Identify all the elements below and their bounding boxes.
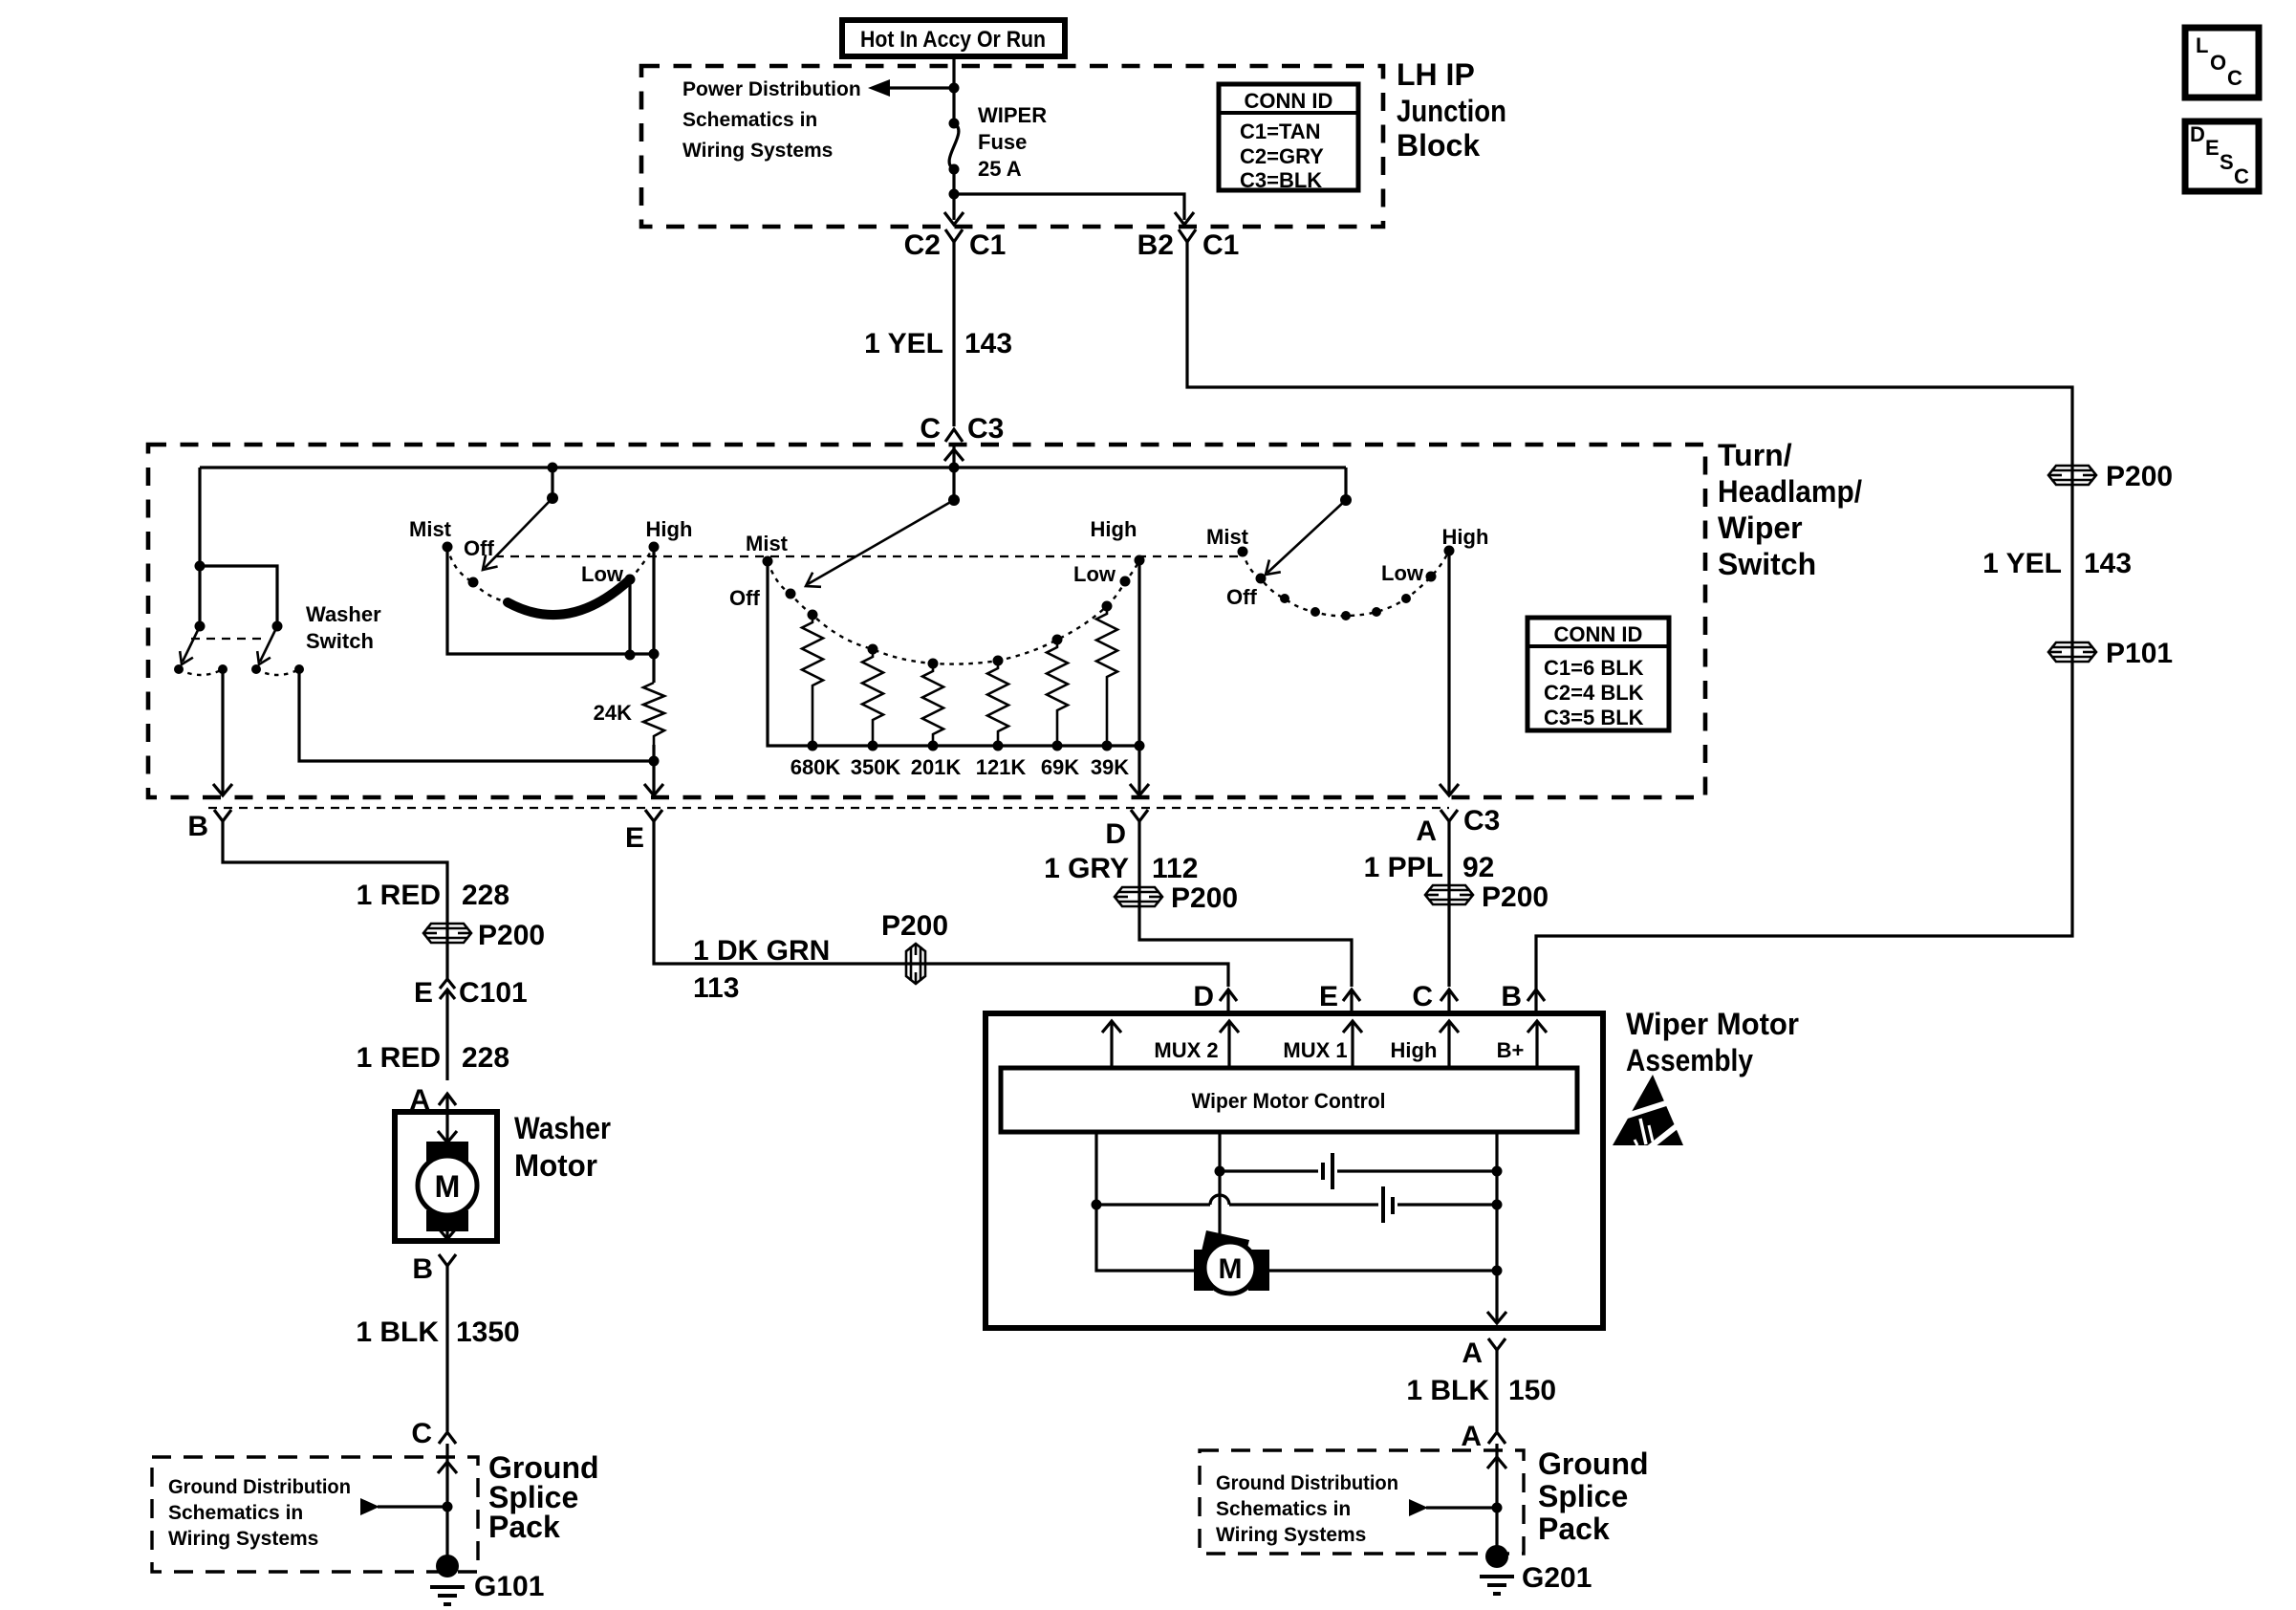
svg-text:Ground: Ground <box>1538 1447 1649 1481</box>
reference arrow into splice <box>360 1498 453 1515</box>
svg-text:E: E <box>1319 981 1338 1012</box>
connector E into assembly <box>1319 981 1360 1013</box>
section 2 dashed contact path <box>768 560 1139 664</box>
svg-text:C1: C1 <box>1202 229 1239 261</box>
wire with up arrow inside splice pack (right) <box>1487 1444 1506 1549</box>
svg-text:MUX 1: MUX 1 <box>1283 1038 1347 1062</box>
connector P101 (right side) <box>2048 638 2173 669</box>
svg-text:Switch: Switch <box>1718 547 1816 581</box>
wire: section 3 High drop to A exit <box>1440 551 1459 795</box>
connector B2/C1 <box>1137 229 1240 261</box>
ESD symbol <box>1613 1075 1691 1151</box>
svg-text:Low: Low <box>581 562 624 586</box>
svg-text:C: C <box>2227 66 2242 90</box>
svg-text:C2: C2 <box>904 229 941 261</box>
svg-text:S: S <box>2220 150 2234 174</box>
svg-text:121K: 121K <box>976 755 1027 779</box>
svg-text:M: M <box>1219 1253 1243 1285</box>
svg-text:P101: P101 <box>2106 638 2173 669</box>
svg-text:CONN ID: CONN ID <box>1245 89 1333 113</box>
svg-text:Off: Off <box>1226 585 1257 609</box>
connector C into assembly <box>1412 981 1458 1013</box>
svg-text:Assembly: Assembly <box>1626 1043 1753 1077</box>
svg-text:A: A <box>1462 1338 1483 1369</box>
CONN ID table (switch) <box>1527 618 1669 730</box>
arrowhead entering switch box <box>944 446 964 468</box>
svg-text:Wiper Motor Control: Wiper Motor Control <box>1192 1089 1386 1113</box>
resistor 69K <box>1047 640 1068 746</box>
connector P200 (washer feed) <box>423 904 545 979</box>
label Ground Splice Pack (right) <box>1538 1447 1649 1546</box>
label Washer Motor <box>514 1111 611 1183</box>
LOC reference box <box>2185 28 2259 98</box>
svg-text:P200: P200 <box>1171 882 1238 914</box>
connector C into ground splice pack <box>411 1418 456 1449</box>
svg-text:Pack: Pack <box>488 1510 560 1544</box>
svg-text:Wiring Systems: Wiring Systems <box>682 140 833 162</box>
svg-text:Ground Distribution: Ground Distribution <box>168 1476 351 1498</box>
svg-text:D: D <box>2190 122 2205 146</box>
resistor 24K <box>594 683 664 745</box>
washer switch left pole <box>174 621 227 676</box>
reference arrow into splice (right) <box>1409 1499 1503 1516</box>
node: junction dot at arrow tap <box>949 83 960 94</box>
svg-text:1 GRY: 1 GRY <box>1044 853 1129 884</box>
svg-text:Wiring Systems: Wiring Systems <box>168 1528 318 1550</box>
svg-text:Power Distribution: Power Distribution <box>682 78 861 100</box>
svg-text:E: E <box>625 822 644 854</box>
wire: switch A to assembly C (1 PPL 92) <box>1364 834 1495 987</box>
svg-text:Low: Low <box>1381 561 1424 585</box>
svg-text:150: 150 <box>1508 1375 1556 1406</box>
resistor 121K <box>987 661 1008 746</box>
dashed mechanical link line across sections <box>495 555 1241 557</box>
svg-text:Schematics in: Schematics in <box>168 1502 303 1524</box>
svg-text:Mist: Mist <box>409 517 452 541</box>
svg-text:C: C <box>1412 981 1433 1012</box>
internal circuit wires <box>1092 1132 1507 1323</box>
wire label 1 RED 228 (upper) <box>357 880 509 911</box>
washer motor box <box>395 1112 497 1241</box>
svg-text:113: 113 <box>693 972 739 1004</box>
svg-text:High: High <box>1442 525 1489 549</box>
connector P200 (on 1 PPL 92) <box>1425 881 1549 913</box>
label Ground Splice Pack (left) <box>488 1450 599 1544</box>
wire: 24K bottom to E exit <box>644 745 663 795</box>
svg-text:Off: Off <box>464 536 494 560</box>
svg-text:C1: C1 <box>969 229 1006 261</box>
svg-text:C1=6 BLK: C1=6 BLK <box>1544 656 1644 680</box>
svg-text:Junction: Junction <box>1397 94 1506 128</box>
dashed mechanical link of washer switch <box>191 638 262 640</box>
section 1 contacts <box>409 517 692 602</box>
connector E exit of switch <box>625 810 662 854</box>
svg-text:CONN ID: CONN ID <box>1554 622 1643 646</box>
wire: branch to second washer contact <box>200 566 277 626</box>
svg-text:112: 112 <box>1152 853 1198 884</box>
wiper motor M symbol <box>1194 1230 1497 1294</box>
resistor 350K <box>862 649 883 746</box>
svg-text:High: High <box>646 517 693 541</box>
svg-text:1 RED: 1 RED <box>357 880 441 911</box>
svg-text:Fuse: Fuse <box>978 130 1027 154</box>
svg-text:Splice: Splice <box>1538 1479 1628 1513</box>
svg-text:P200: P200 <box>881 910 948 942</box>
svg-text:A: A <box>1416 816 1437 847</box>
ground G201 <box>1480 1545 1592 1594</box>
wire: section 2 Mist drop and bottom rail <box>768 561 1139 746</box>
svg-text:C1=TAN: C1=TAN <box>1240 120 1321 143</box>
wire: B to washer motor drop <box>223 834 447 904</box>
rail junction dots <box>808 741 1145 751</box>
svg-text:E: E <box>414 977 433 1009</box>
svg-text:C101: C101 <box>459 977 528 1009</box>
capacitor line 1 <box>1220 1153 1497 1189</box>
section 3 contacts and labels <box>1206 525 1488 609</box>
svg-text:P200: P200 <box>1482 881 1549 913</box>
wire from B2 to right side <box>1187 256 2072 990</box>
svg-text:228: 228 <box>462 1042 509 1074</box>
svg-text:MUX 2: MUX 2 <box>1154 1038 1218 1062</box>
svg-text:High: High <box>1091 517 1137 541</box>
fuse WIPER Fuse 25 A <box>949 103 1048 181</box>
svg-text:L: L <box>2196 33 2208 57</box>
connector A into washer motor <box>409 1084 456 1116</box>
svg-text:E: E <box>2205 136 2220 160</box>
svg-text:Off: Off <box>729 586 760 610</box>
connector C2/C1 <box>904 229 1007 261</box>
svg-text:39K: 39K <box>1091 755 1129 779</box>
label Washer Switch <box>306 602 381 653</box>
label LH IP Junction Block <box>1397 57 1506 163</box>
section 1 thick wiper arc <box>508 579 630 615</box>
DESC reference box <box>2185 121 2259 191</box>
Turn/Headlamp/Wiper Switch dashed box <box>148 445 1705 797</box>
svg-text:25 A: 25 A <box>978 157 1022 181</box>
svg-text:Low: Low <box>1073 562 1116 586</box>
resistor 680K <box>802 615 823 746</box>
section 1 wiring <box>447 547 660 683</box>
svg-text:201K: 201K <box>911 755 962 779</box>
svg-text:Motor: Motor <box>514 1148 597 1183</box>
svg-text:Turn/: Turn/ <box>1718 438 1792 472</box>
svg-text:O: O <box>2210 51 2226 75</box>
svg-text:Headlamp/: Headlamp/ <box>1718 474 1862 509</box>
ground splice pack G201 dashed box <box>1200 1450 1524 1554</box>
thin dashed connector face line below switch box <box>208 807 1449 809</box>
label Turn/Headlamp/Wiper Switch <box>1718 438 1862 581</box>
svg-text:1 YEL: 1 YEL <box>1982 548 2062 579</box>
wire: branch to B2 <box>954 194 1184 220</box>
connector B exit of washer motor <box>412 1253 456 1431</box>
wire label 1 YEL 143 (right side) <box>1982 548 2132 579</box>
svg-text:B: B <box>412 1253 433 1285</box>
connector D exit of switch <box>1105 810 1148 850</box>
svg-text:Wiring Systems: Wiring Systems <box>1216 1524 1366 1546</box>
resistor 201K <box>922 664 943 746</box>
wire 1 YEL 143 (left drop) <box>864 256 1012 426</box>
svg-text:C2=GRY: C2=GRY <box>1240 144 1324 168</box>
note Ground Distribution Schematics in Wiring Systems (right) <box>1216 1472 1398 1546</box>
svg-text:Ground Distribution: Ground Distribution <box>1216 1472 1398 1494</box>
svg-text:143: 143 <box>2084 548 2132 579</box>
svg-text:B: B <box>1501 981 1522 1012</box>
arrow to Power Distribution <box>868 79 954 97</box>
CONN ID table (junction block) <box>1219 84 1358 192</box>
wire: left drop to washer switch <box>198 468 201 626</box>
svg-text:B: B <box>187 811 208 842</box>
svg-text:WIPER: WIPER <box>978 103 1047 127</box>
svg-text:Mist: Mist <box>1206 525 1249 549</box>
svg-text:D: D <box>1105 818 1126 850</box>
wire label 1 BLK 150 <box>1406 1375 1556 1406</box>
connector C/C3 into switch <box>920 413 1004 445</box>
wiper switch section 1 pivot <box>483 463 558 571</box>
ground splice pack G101 dashed box <box>152 1457 478 1572</box>
resistor ladder top nodes <box>808 601 1113 669</box>
svg-text:1 PPL: 1 PPL <box>1364 852 1443 883</box>
connector A into ground splice pack <box>1461 1421 1505 1452</box>
connector E C101 <box>414 977 528 1080</box>
assembly terminal arrows and labels <box>1102 1021 1547 1068</box>
wire label 1 BLK 1350 <box>356 1316 519 1348</box>
svg-text:P200: P200 <box>478 920 545 951</box>
note Power Distribution Schematics in Wiring Systems <box>682 78 861 162</box>
LH IP Junction Block dashed box <box>641 66 1383 227</box>
svg-text:Pack: Pack <box>1538 1512 1610 1546</box>
wiper motor assembly box <box>986 1013 1603 1328</box>
svg-text:1 YEL: 1 YEL <box>864 328 943 359</box>
svg-text:Hot In Accy Or Run: Hot In Accy Or Run <box>860 27 1046 53</box>
wiper switch section 2 pivot <box>806 463 960 587</box>
wire: switch D to assembly E (1 GRY 112) <box>1044 834 1352 987</box>
svg-text:P200: P200 <box>2106 461 2173 492</box>
wire: section 2 High drop to D exit <box>1130 560 1149 795</box>
svg-text:Mist: Mist <box>746 532 789 555</box>
svg-text:143: 143 <box>964 328 1012 359</box>
node: junction dot at branch <box>949 189 960 200</box>
svg-text:69K: 69K <box>1041 755 1079 779</box>
svg-text:Schematics in: Schematics in <box>1216 1498 1351 1520</box>
svg-text:A: A <box>1461 1421 1482 1452</box>
svg-text:350K: 350K <box>851 755 901 779</box>
svg-text:1350: 1350 <box>456 1316 520 1348</box>
washer motor M symbol <box>418 1112 477 1239</box>
connector D into assembly <box>1193 981 1237 1013</box>
label Wiper Motor Assembly <box>1626 1007 1799 1077</box>
svg-text:G201: G201 <box>1522 1562 1592 1594</box>
ground G101 <box>430 1555 544 1604</box>
connector B into assembly <box>1501 981 1545 1013</box>
wire: switch E to wiper motor assembly D (1 DK GRN 113) <box>654 834 1228 1004</box>
svg-text:680K: 680K <box>791 755 841 779</box>
svg-text:Wiper: Wiper <box>1718 511 1803 545</box>
svg-text:LH IP: LH IP <box>1397 57 1475 92</box>
svg-text:Washer: Washer <box>514 1111 611 1145</box>
svg-text:D: D <box>1193 981 1214 1012</box>
wire: washer switch output to B <box>213 669 232 795</box>
svg-text:1 RED: 1 RED <box>357 1042 441 1074</box>
svg-text:C3=BLK: C3=BLK <box>1240 168 1322 192</box>
capacitor line 2 with hop <box>1096 1186 1497 1223</box>
svg-text:C2=4 BLK: C2=4 BLK <box>1544 681 1644 705</box>
wire: washer switch output to E rail <box>299 669 654 761</box>
svg-text:C: C <box>2234 164 2249 188</box>
svg-text:Switch: Switch <box>306 629 374 653</box>
Wiper Motor Control box <box>1001 1068 1577 1132</box>
svg-text:1 BLK: 1 BLK <box>1406 1375 1489 1406</box>
wiper switch section 3 pivot <box>1266 468 1352 575</box>
svg-text:C3: C3 <box>1463 805 1500 837</box>
svg-text:Wiper Motor: Wiper Motor <box>1626 1007 1799 1041</box>
svg-text:C: C <box>920 413 941 445</box>
svg-text:G101: G101 <box>474 1571 544 1602</box>
svg-text:C: C <box>411 1418 432 1449</box>
section 2 contacts and labels <box>729 517 1145 610</box>
svg-text:M: M <box>435 1169 461 1204</box>
connector A exit of assembly <box>1462 1338 1505 1431</box>
wire: feed from Hot box into junction block <box>952 56 955 123</box>
svg-text:B2: B2 <box>1137 229 1174 261</box>
svg-text:C3: C3 <box>967 413 1004 445</box>
svg-text:High: High <box>1391 1038 1438 1062</box>
section 3 dashed contact path with dots <box>1243 551 1449 620</box>
washer switch right pole <box>251 621 304 676</box>
node dot <box>195 561 206 572</box>
svg-text:24K: 24K <box>594 701 632 725</box>
connector A/C3 exit of switch <box>1416 805 1500 847</box>
svg-text:B+: B+ <box>1497 1038 1525 1062</box>
power label box "Hot In Accy Or Run" <box>842 20 1065 56</box>
svg-text:1 BLK: 1 BLK <box>356 1316 439 1348</box>
note Ground Distribution Schematics in Wiring Systems (left) <box>168 1476 351 1550</box>
svg-text:Block: Block <box>1397 128 1480 163</box>
resistor 39K <box>1096 606 1117 746</box>
connector P200 (on 1 GRY 112) <box>1115 882 1238 914</box>
connector B exit of switch <box>187 810 231 842</box>
wire with up arrow inside splice pack <box>438 1444 457 1562</box>
arrowhead into C1 (right) <box>1175 212 1194 225</box>
svg-text:92: 92 <box>1462 852 1494 883</box>
svg-text:228: 228 <box>462 880 509 911</box>
wire: internal feed bus <box>200 466 1346 468</box>
wire label 1 RED 228 (lower) <box>357 1042 509 1074</box>
svg-text:Schematics in: Schematics in <box>682 109 817 131</box>
svg-text:C3=5 BLK: C3=5 BLK <box>1544 706 1644 729</box>
connector P200 inline (vertical, on DK GRN wire) <box>881 910 948 984</box>
arrowhead into C1 (left) <box>944 194 964 225</box>
svg-text:1 DK GRN: 1 DK GRN <box>693 935 830 967</box>
connector P200 (right side, inline on 1 YEL 143) <box>2048 461 2173 492</box>
svg-text:Washer: Washer <box>306 602 381 626</box>
